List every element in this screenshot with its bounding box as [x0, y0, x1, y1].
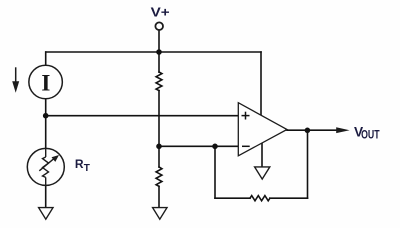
svg-text:T: T	[84, 163, 90, 174]
svg-text:OUT: OUT	[361, 127, 380, 141]
svg-text:R: R	[75, 157, 84, 171]
svg-text:I: I	[41, 70, 50, 95]
svg-text:V+: V+	[151, 5, 170, 19]
